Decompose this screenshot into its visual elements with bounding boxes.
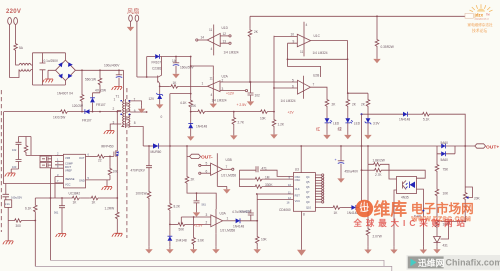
diode 5A60 (upper): [441, 144, 445, 149]
ground arrow: [190, 128, 192, 133]
wire pin3: [181, 217, 211, 224]
svg-text:4.1K: 4.1K: [180, 101, 187, 105]
svg-text:U3: U3: [295, 168, 299, 172]
ground arrow: [326, 123, 328, 132]
svg-text:1/4 LM324: 1/4 LM324: [313, 51, 328, 55]
svg-text:102: 102: [12, 148, 17, 152]
svg-text:1/4 LM324: 1/4 LM324: [212, 99, 227, 103]
svg-text:VCC: VCC: [295, 199, 301, 203]
capacitor 470P/2KV: [148, 146, 150, 166]
oscillator RC network wires: [239, 170, 293, 186]
wire TL431 ref: [441, 220, 466, 222]
ground arrow: [169, 241, 171, 247]
diode 1N4148: [236, 218, 240, 223]
svg-text:U2B: U2B: [313, 74, 319, 78]
svg-text:6: 6: [206, 169, 208, 173]
svg-text:16: 16: [287, 201, 290, 205]
svg-text:迅维网: 迅维网: [418, 257, 445, 268]
svg-text:家电维修杂志社: 家电维修杂志社: [468, 22, 494, 27]
svg-text:U3A: U3A: [220, 212, 227, 216]
svg-text:13: 13: [223, 39, 227, 43]
resistor 1.8K/2W: [368, 146, 372, 164]
resistor 75K: [436, 154, 438, 163]
wire pin9 + feedback: [288, 43, 321, 77]
LED red: [326, 108, 328, 118]
wire: [16, 52, 19, 65]
ground arrow: [256, 245, 258, 246]
svg-text:LED: LED: [333, 122, 340, 126]
wire: [431, 114, 465, 146]
ground arrow: [233, 126, 235, 133]
zener 3.9V: [367, 108, 369, 118]
ground (hatched): [104, 131, 115, 134]
ground (hatched): [56, 234, 67, 237]
diode 1N4148: [403, 112, 407, 117]
svg-text:Q7: Q7: [306, 190, 310, 194]
zener 12V: [157, 93, 163, 99]
wire pin12: [220, 35, 229, 37]
resistor 22: [96, 155, 106, 159]
diode MUR60: [143, 145, 153, 147]
ground arrow (large): [301, 248, 303, 251]
svg-text:RST: RST: [295, 194, 301, 198]
wire pin6: [274, 87, 298, 89]
svg-text:1N4148: 1N4148: [233, 225, 244, 229]
svg-text:OSC: OSC: [295, 178, 301, 182]
wire pin3: [220, 90, 245, 92]
diode 1N4148: [168, 236, 173, 241]
resistor 1M: [239, 178, 253, 180]
ground (hatched): [5, 173, 16, 176]
capacitor 103: [16, 160, 22, 162]
LED green: [347, 108, 349, 118]
op-amp U1C: [297, 22, 310, 57]
resistor 2K (red LED): [325, 98, 329, 108]
svg-text:U1D: U1D: [222, 26, 229, 30]
ground (hatched): [116, 221, 118, 234]
diode 5A60 (lower): [437, 146, 455, 154]
ground arrow: [337, 176, 344, 183]
svg-text:FR107: FR107: [152, 61, 162, 65]
svg-text:5: 5: [292, 78, 294, 82]
svg-text:3.9V: 3.9V: [373, 122, 380, 126]
svg-text:jdzx: jdzx: [474, 13, 484, 18]
resistor 330K: [239, 186, 253, 188]
resistor 5.1K: [407, 113, 421, 115]
svg-text:绿: 绿: [338, 126, 343, 132]
wire bottom bus (inner): [51, 260, 385, 266]
svg-text:300: 300: [16, 224, 22, 228]
junction nodes on startup wire: [81, 111, 83, 113]
wire RST: [257, 193, 294, 195]
capacitor C1 (boxed): [40, 156, 52, 162]
svg-text:+ 2.5V: + 2.5V: [237, 103, 248, 107]
svg-text:5A60: 5A60: [441, 141, 449, 145]
resistor 10K: [196, 110, 206, 114]
svg-text:U1C: U1C: [314, 34, 321, 38]
main DC bus wire: [75, 69, 123, 71]
svg-text:1: 1: [114, 98, 116, 102]
TL431 U5: [434, 229, 441, 246]
svg-text:10K: 10K: [443, 192, 450, 196]
resistor 1K: [90, 196, 100, 200]
wire to OUT+: [455, 145, 475, 147]
svg-text:561: 561: [202, 203, 207, 207]
svg-text:6: 6: [292, 85, 294, 89]
ground arrow: [390, 247, 397, 254]
svg-text:4: 4: [211, 93, 213, 97]
svg-text:1/2 LM358: 1/2 LM358: [220, 229, 235, 233]
bridge rectifier 1N4007 x4: [56, 53, 76, 85]
wire pin2 + 50K: [170, 223, 177, 225]
terminal OUT-: [187, 146, 190, 156]
wire to U2A supply: [191, 66, 214, 76]
resistor 0.35R/2W: [376, 16, 378, 38]
ground (hatched): [102, 187, 113, 190]
svg-text:5.1K: 5.1K: [423, 118, 430, 122]
common-mode choke L1: [19, 63, 31, 71]
svg-text:102: 102: [255, 94, 261, 98]
svg-text:14: 14: [201, 36, 205, 40]
resistor 100/1W: [147, 190, 151, 200]
diode 1N4148: [342, 207, 352, 209]
svg-text:红: 红: [316, 126, 320, 132]
resistor 4.1K: [189, 99, 193, 109]
svg-text:2K: 2K: [254, 30, 259, 34]
wire: [31, 53, 65, 85]
capacitor 4.7u: [250, 210, 252, 214]
pin8 ground wire: [301, 211, 303, 249]
svg-text:3: 3: [57, 173, 59, 177]
svg-text:100/1W: 100/1W: [136, 192, 147, 196]
svg-text:VREF: VREF: [65, 169, 72, 173]
svg-text:5A: 5A: [19, 46, 24, 50]
resistor 2.7K (ref divider): [233, 112, 235, 116]
svg-text:Chinafix.com: Chinafix.com: [446, 258, 500, 268]
svg-text:风扇: 风扇: [127, 8, 139, 16]
svg-text:120/2W: 120/2W: [72, 104, 83, 108]
ground arrow: [367, 123, 369, 132]
right Q pin stubs: [315, 175, 321, 202]
resistor 1K: [332, 206, 342, 210]
wire (sec top tap): [131, 101, 142, 106]
svg-text:2: 2: [113, 107, 115, 111]
svg-text:Q8: Q8: [306, 195, 310, 199]
resistor 1.2RW (sense): [116, 211, 120, 221]
svg-text:10K: 10K: [260, 117, 267, 121]
capacitor C2 (boxed): [40, 162, 52, 168]
svg-text:10: 10: [291, 33, 295, 37]
capacitor 471: [256, 166, 258, 172]
op-amp U3A: [211, 209, 223, 234]
svg-text:471: 471: [262, 167, 268, 171]
svg-text:FR107: FR107: [82, 119, 92, 123]
ground arrow: [420, 247, 427, 254]
ground arrow: [193, 210, 200, 217]
svg-text:4.7u/50V: 4.7u/50V: [240, 210, 251, 214]
wire fan feed: [136, 21, 138, 77]
resistor 10K (lower): [436, 198, 438, 220]
svg-text:1/2 LM358: 1/2 LM358: [221, 174, 236, 178]
wire green chain: [348, 93, 369, 98]
wire pin7 output: [223, 168, 232, 170]
svg-text:ISENSE: ISENSE: [65, 177, 75, 181]
page border dashed: [0, 90, 2, 232]
wire GND pin: [86, 180, 111, 187]
ground arrow: [347, 123, 349, 132]
diode FR107 (startup): [85, 109, 90, 114]
wire pin13: [220, 42, 229, 44]
svg-text:3: 3: [206, 213, 208, 217]
svg-text:1.2RW: 1.2RW: [105, 207, 115, 211]
svg-text:2K: 2K: [191, 178, 196, 182]
capacitor 102: [250, 82, 252, 93]
svg-text:T1: T1: [116, 95, 120, 99]
wire pin2 bus: [220, 81, 298, 83]
resistor 10K (CD4060 vcc): [255, 235, 259, 245]
svg-text:2K: 2K: [352, 103, 357, 107]
wire top bus: [250, 15, 465, 17]
svg-text:12: 12: [223, 32, 227, 36]
wire: [362, 113, 404, 115]
wire pin14 output: [198, 39, 207, 41]
capacitor 160u/50V: [175, 57, 177, 63]
capacitor 160u/25V: [5, 184, 7, 195]
svg-text:1M: 1M: [265, 175, 270, 179]
svg-text:3.6K: 3.6K: [198, 239, 205, 243]
svg-text:4N35: 4N35: [401, 196, 409, 200]
resistor 2K (green LED): [346, 98, 350, 108]
ground arrow: [273, 128, 275, 132]
svg-text:0.35R2W: 0.35R2W: [381, 45, 394, 49]
resistor 1.2K: [273, 112, 275, 118]
terminal fan-: [129, 15, 133, 21]
svg-text:技术论坛: 技术论坛: [472, 28, 487, 33]
svg-text:2K: 2K: [361, 103, 366, 107]
svg-text:0.1u/250V: 0.1u/250V: [44, 59, 59, 63]
wire output U1C: [288, 41, 348, 94]
svg-text:2K: 2K: [332, 103, 337, 107]
svg-text:C2383: C2383: [152, 67, 162, 71]
transformer secondary winding 2: [128, 115, 143, 146]
svg-text:3: 3: [222, 87, 224, 91]
svg-text:+12V: +12V: [226, 92, 235, 96]
svg-text:MUR60: MUR60: [151, 150, 162, 154]
watermark logo circle (dzsc): [356, 200, 374, 218]
svg-text:Q10: Q10: [306, 206, 311, 210]
ground (hatched): [7, 221, 9, 241]
svg-text:20K: 20K: [474, 197, 481, 201]
pin16 top wire: [300, 146, 302, 173]
svg-text:11: 11: [209, 28, 213, 32]
svg-text:8.2K: 8.2K: [174, 205, 181, 209]
svg-text:431: 431: [443, 244, 449, 248]
logo sun rays: [470, 4, 493, 11]
svg-text:Q4: Q4: [306, 175, 310, 179]
svg-text:+2V: +2V: [288, 111, 295, 115]
resistor 1K: [160, 85, 170, 87]
svg-text:220V: 220V: [6, 9, 21, 15]
capacitor 2.2u box: [5, 200, 12, 208]
ground arrow: [130, 21, 132, 24]
svg-text:1N4007 X4: 1N4007 X4: [57, 92, 73, 96]
junction nodes on output bus: [148, 145, 150, 147]
svg-text:IRFP450: IRFP450: [101, 145, 114, 149]
IC U3 CD4060: [293, 173, 315, 212]
left rail + VCC wire: [4, 112, 64, 184]
svg-text:330K: 330K: [265, 183, 273, 187]
svg-text:450u/40V: 450u/40V: [345, 170, 360, 174]
resistor 2K: [186, 156, 188, 175]
svg-text:2: 2: [222, 78, 224, 82]
svg-text:FR107: FR107: [96, 103, 106, 107]
svg-text:560/1W: 560/1W: [85, 78, 96, 82]
IC U1 UC3842: [63, 154, 85, 188]
ground arrow: [159, 99, 161, 102]
svg-text:+: +: [335, 158, 337, 162]
terminal OUT+: [475, 144, 486, 148]
wire pin5: [201, 164, 211, 166]
svg-text:1N4148: 1N4148: [196, 125, 207, 129]
ground arrow: [376, 48, 378, 56]
svg-text:5A60: 5A60: [441, 158, 449, 162]
wire: [10, 25, 19, 78]
svg-text:75K: 75K: [443, 168, 450, 172]
transformer secondary winding 1: [128, 101, 146, 112]
resistor 300: [13, 219, 23, 223]
wire: [15, 25, 17, 43]
left filter: capacitor 102: [18, 137, 20, 143]
svg-text:1N4148: 1N4148: [399, 118, 410, 122]
svg-text:2.7K: 2.7K: [375, 173, 382, 177]
resistor 8.2K: [170, 94, 191, 202]
svg-text:1K: 1K: [173, 81, 178, 85]
svg-text:+2.5V: +2.5V: [194, 224, 204, 228]
op-amp U2A: [208, 76, 221, 101]
wire divider row: [35, 197, 117, 199]
wire opto pins: [394, 189, 423, 247]
svg-text:12V: 12V: [149, 97, 156, 101]
svg-text:5: 5: [206, 162, 208, 166]
wire pin2 (drain tap): [117, 110, 121, 111]
wire VCC CD4060: [257, 194, 293, 235]
resistor 10K: [259, 110, 269, 114]
ground arrow: [217, 185, 227, 187]
svg-text:维库: 维库: [374, 199, 408, 219]
svg-text:8: 8: [303, 213, 305, 217]
svg-text:UC3842: UC3842: [69, 192, 81, 196]
terminal L: [8, 18, 12, 25]
svg-text:2.07W: 2.07W: [373, 235, 382, 239]
resistor 4.7K (vert): [25, 137, 27, 145]
svg-text:7: 7: [313, 83, 315, 87]
svg-text:11: 11: [210, 77, 214, 81]
resistor 2.7K: [362, 169, 374, 171]
svg-text:Q9: Q9: [306, 200, 310, 204]
svg-text:1K/0.5W: 1K/0.5W: [53, 116, 65, 120]
svg-text:OUT-: OUT-: [201, 155, 213, 161]
comparator U3B: [211, 153, 223, 186]
svg-text:Q5: Q5: [306, 180, 310, 184]
wire OUT pin to gate: [86, 155, 97, 157]
wire COMP loop vertical: [50, 168, 52, 260]
capacitor CX 0.1u/250V: [40, 53, 46, 85]
svg-text:1K: 1K: [92, 201, 97, 205]
svg-text:10K: 10K: [113, 170, 120, 174]
wire x368 down + resistor 2.07W + ground arrow: [367, 164, 369, 227]
svg-text:6: 6: [134, 109, 136, 113]
ground arrow (U3A rail): [215, 234, 217, 247]
svg-text:R/CT: R/CT: [65, 165, 71, 169]
ground (hatched): [48, 70, 56, 79]
svg-text:8: 8: [134, 121, 136, 125]
svg-text:9: 9: [289, 175, 291, 179]
wire Q out to buzzer: [315, 207, 331, 209]
svg-text:CLK: CLK: [295, 187, 300, 191]
capacitor 561: [61, 198, 63, 206]
svg-text:103: 103: [12, 165, 17, 169]
svg-text:10K: 10K: [261, 238, 268, 242]
svg-text:CD4060: CD4060: [279, 208, 291, 212]
svg-text:1/4 LM324: 1/4 LM324: [224, 51, 239, 55]
svg-text:1.2K: 1.2K: [278, 123, 285, 127]
svg-text:U3B: U3B: [226, 158, 232, 162]
wire (+12V rail): [190, 57, 192, 99]
wire output pin7: [310, 87, 327, 98]
svg-text:10: 10: [288, 183, 291, 187]
resistor 1K: [71, 196, 81, 200]
svg-text:2.2u: 2.2u: [5, 203, 10, 206]
svg-text:1: 1: [227, 217, 229, 221]
logo stamp box: [465, 13, 473, 18]
svg-text:1.8K/2W: 1.8K/2W: [373, 159, 385, 163]
svg-text:470P/2KV: 470P/2KV: [131, 169, 146, 173]
top right forum logo: [465, 4, 493, 20]
chinafix bar: [407, 255, 500, 270]
svg-text:全球最大IC采购网站: 全球最大IC采购网站: [353, 218, 469, 228]
ground arrow: [210, 101, 217, 108]
ground arrow: [193, 245, 195, 247]
terminal fan+: [135, 15, 139, 21]
resistor 10K: [436, 173, 438, 188]
svg-text:VCC: VCC: [65, 183, 71, 187]
svg-text:11: 11: [300, 50, 304, 54]
svg-text:4: 4: [306, 23, 308, 27]
resistor 6.1K: [34, 204, 38, 214]
diode FR107 (snubber): [92, 93, 94, 112]
transformer core: [124, 99, 126, 128]
wire (startup feed): [4, 111, 122, 113]
svg-text:VFB: VFB: [65, 156, 70, 160]
diode FR107 (aux): [147, 56, 156, 58]
svg-text:0: 0: [161, 115, 163, 119]
svg-text:1N4148: 1N4148: [176, 239, 187, 243]
svg-text:Q6: Q6: [306, 185, 310, 189]
wire bottom bus (outer): [35, 266, 392, 271]
wire pin10: [274, 36, 297, 112]
svg-text:电子市场网: 电子市场网: [411, 201, 474, 216]
svg-text:9: 9: [293, 40, 295, 44]
svg-text:1K: 1K: [334, 211, 339, 215]
wire: [11, 137, 63, 174]
op-amp U1D: [207, 25, 220, 56]
svg-text:7: 7: [226, 165, 228, 169]
svg-text:160u/25V: 160u/25V: [11, 196, 22, 200]
wire +OUT bus: [158, 145, 437, 147]
optocoupler U4 4N35: [397, 177, 417, 194]
junction nodes on DC bus: [81, 69, 83, 71]
svg-text:TM: TM: [486, 13, 489, 16]
